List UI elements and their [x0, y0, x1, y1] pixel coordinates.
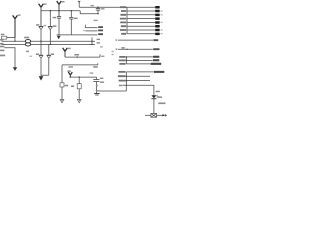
wire	[49, 11, 51, 27]
ferrite bead FB1	[24, 37, 30, 43]
wire	[153, 85, 155, 95]
net label ground rail	[98, 33, 103, 35]
power flag VCC4	[63, 48, 68, 57]
T1 right labels	[151, 56, 162, 65]
net label VCC3	[62, 1, 65, 3]
wire	[157, 114, 163, 116]
wire	[4, 48, 15, 68]
net label mid row2	[98, 30, 103, 32]
wire	[48, 58, 50, 75]
T2 left labels	[118, 71, 126, 82]
capacitor C2 junction	[91, 37, 100, 45]
wire	[61, 65, 63, 100]
capacitor C1	[91, 5, 105, 21]
T2 right label	[154, 71, 164, 73]
wire line A	[41, 10, 80, 12]
power flag VCC2	[39, 4, 44, 27]
capacitor C9	[69, 17, 77, 35]
resistor R2	[60, 83, 68, 87]
net label D-	[0, 43, 3, 45]
LED D6	[151, 114, 157, 118]
resistor R3	[71, 84, 81, 89]
wire mid row1	[85, 25, 97, 28]
wire	[40, 58, 42, 75]
wire	[153, 99, 155, 114]
wire	[145, 114, 151, 116]
connector J1 vertical bus	[126, 7, 128, 34]
net label E	[74, 54, 79, 56]
net label mid-left B	[30, 56, 33, 57]
net label mid row1	[98, 26, 103, 28]
ferrite bead FB2	[25, 43, 30, 46]
pin stub	[97, 63, 99, 65]
net label mid-right	[100, 46, 103, 47]
ground	[13, 67, 17, 71]
T1 left labels	[119, 56, 126, 65]
ground	[57, 35, 98, 39]
wire	[78, 77, 80, 100]
wire	[7, 38, 15, 42]
wire corner	[80, 11, 98, 14]
diode D7	[163, 114, 168, 116]
terminal TP1	[60, 100, 64, 103]
node D	[50, 44, 51, 45]
wire row V3	[112, 47, 160, 55]
net label	[101, 56, 104, 57]
power flag VCC3	[57, 1, 62, 16]
wire	[62, 64, 98, 66]
ground	[94, 94, 99, 96]
wire row GND	[116, 39, 159, 41]
connector J1 pin pads	[155, 6, 160, 35]
power stub	[78, 1, 80, 7]
node G	[79, 76, 80, 77]
wire bus D+	[2, 40, 96, 42]
connector J1 right texts	[161, 10, 163, 34]
node F	[70, 76, 71, 77]
net label left mid3	[0, 55, 5, 57]
pin stub	[99, 54, 101, 57]
net label	[93, 66, 98, 68]
resistor R1	[1, 34, 7, 39]
net label DS	[156, 91, 160, 93]
net label	[96, 85, 98, 86]
net label	[68, 66, 73, 68]
net label VCC1	[18, 14, 21, 16]
wire	[70, 76, 96, 78]
net label	[158, 103, 165, 105]
zener Z1	[36, 41, 43, 58]
ground	[39, 75, 44, 80]
wire	[40, 30, 42, 42]
header rows group T2	[126, 72, 154, 91]
node C	[40, 41, 41, 42]
node	[50, 10, 51, 11]
header rows group T1	[126, 56, 153, 64]
power flag VCC1	[13, 15, 18, 37]
node E	[77, 56, 78, 57]
wire	[41, 74, 49, 76]
net label VCC4	[68, 48, 71, 50]
wire	[65, 56, 100, 58]
net label	[96, 90, 99, 91]
net label left mid2	[0, 50, 4, 52]
terminal TP2	[77, 100, 81, 103]
node A	[14, 41, 15, 42]
capacitor C4	[90, 72, 104, 93]
net label left mid1	[0, 46, 4, 48]
LED D5	[151, 95, 162, 99]
capacitor C8	[53, 17, 62, 35]
wire	[70, 11, 72, 17]
zener Z2	[47, 44, 54, 58]
diode D2	[48, 25, 56, 29]
wire	[49, 30, 51, 45]
net label D+	[0, 39, 3, 41]
net label mid-left A	[26, 51, 29, 53]
net label VCC2	[44, 3, 47, 5]
wire bus D-	[2, 43, 96, 45]
wire long row	[119, 84, 154, 86]
node B	[58, 10, 59, 11]
wire mid row2	[83, 30, 97, 31]
diode D1	[36, 24, 46, 29]
power flag VCC5	[67, 70, 72, 77]
node	[71, 10, 72, 11]
wire row1 bus	[79, 6, 127, 8]
connector J1 left pin labels	[120, 6, 126, 34]
connector J1 pin rows	[127, 7, 155, 34]
wire	[99, 90, 126, 92]
